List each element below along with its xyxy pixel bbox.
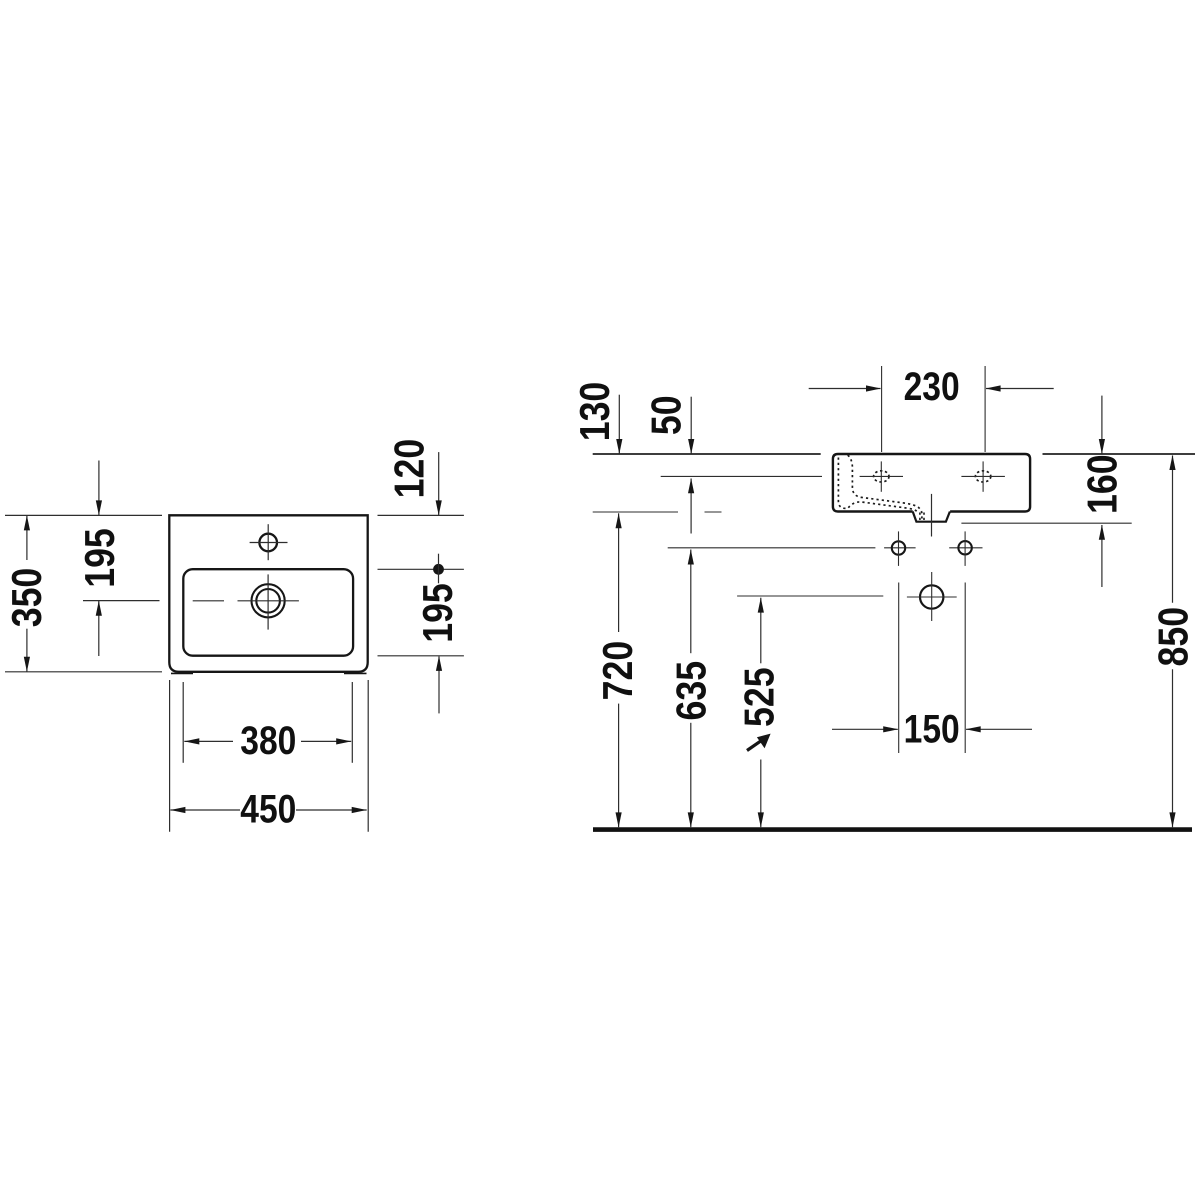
extension line bowl bottom (right) — [378, 655, 464, 657]
dim 850 line lower — [1172, 669, 1174, 827]
dim 635 line lower — [690, 723, 692, 827]
dim label 50 — [643, 395, 690, 435]
dim 120 dot — [433, 564, 444, 575]
dim 450 line right — [296, 809, 367, 811]
dim 195R arrow line — [438, 657, 440, 714]
dim 350 line upper — [26, 516, 28, 560]
dim 50 arrow down — [688, 439, 694, 454]
dim 350 arrow up — [24, 515, 30, 530]
basin bottom level line b — [705, 511, 722, 513]
dim 160 arrow up — [1099, 525, 1105, 540]
dim 130 upper arrow line — [618, 395, 620, 454]
dim 525 line lower — [760, 760, 762, 828]
dim label 350 — [3, 568, 50, 628]
dim 120 dot line — [438, 554, 440, 584]
svg-text:350: 350 — [3, 568, 50, 628]
dim 195L arrow up — [96, 601, 102, 616]
tap hole left dashed ellipse — [874, 471, 889, 482]
dim 120 arrow line — [438, 452, 440, 515]
dim label 635 — [667, 661, 714, 721]
dim 150 arrow right-pointing — [883, 726, 898, 732]
dim 50 upper arrow line — [690, 397, 692, 454]
extension line outer right (450) — [367, 680, 369, 832]
svg-text:150: 150 — [904, 707, 960, 751]
dim label 450 — [240, 788, 296, 832]
tap hole circle (plan) — [259, 534, 277, 552]
svg-text:525: 525 — [735, 667, 782, 727]
svg-text:160: 160 — [1079, 454, 1126, 514]
dim 195L arrow down — [96, 500, 102, 515]
extension line drain center (left) — [83, 600, 160, 602]
bowl section dotted outer — [848, 455, 922, 522]
dim 195R arrow up — [436, 656, 442, 671]
fixing holes level line — [668, 547, 876, 549]
dim 50 lower arrow line — [690, 479, 692, 534]
dim label 160 — [1079, 454, 1126, 514]
dim 160 upper arrow line — [1101, 396, 1103, 454]
dim 635 line upper — [690, 550, 692, 654]
dim 150 line left — [832, 728, 898, 730]
tap hole level line — [661, 475, 822, 477]
dim 230 arrow left-pointing — [986, 385, 1001, 391]
level line 160 bottom — [961, 522, 1131, 524]
adjustability arrow — [747, 734, 771, 751]
drain pipe dotted left — [919, 513, 921, 522]
dim label 195 left — [76, 528, 123, 588]
dim 230 line right — [986, 388, 1054, 390]
drain inner circle (plan) — [256, 589, 280, 613]
dim 525 line upper — [760, 598, 762, 664]
svg-text:450: 450 — [240, 788, 296, 832]
extension line fixing left (150) — [898, 583, 900, 754]
dim label 850 — [1150, 607, 1197, 667]
dim 850 arrow down — [1169, 812, 1175, 827]
extension line top edge (left) — [5, 514, 162, 516]
bowl centerline dash — [193, 600, 224, 602]
dim 230 line left — [809, 388, 881, 390]
extension line fixing right (150) — [964, 583, 966, 754]
drain centerline (side) — [931, 494, 933, 537]
tap hole left crosshair v — [880, 461, 882, 491]
waste hole circle — [920, 585, 943, 608]
extension line bowl top (right) — [378, 568, 464, 570]
svg-text:720: 720 — [594, 641, 641, 701]
svg-text:50: 50 — [643, 395, 690, 435]
basin body outline (side view) — [833, 454, 1030, 512]
waste hole crosshair v — [931, 572, 933, 621]
drain outlet trapezoid — [913, 512, 950, 522]
dim 120 arrow down — [436, 500, 442, 515]
dim 380 line left — [184, 740, 233, 742]
dim label 230 — [904, 365, 960, 409]
dim 850 line upper — [1172, 456, 1174, 603]
bowl section dotted inner — [838, 458, 917, 512]
tap hole left crosshair h — [860, 475, 903, 477]
tap hole right crosshair h — [961, 475, 1005, 477]
basin outer rim (plan view) — [169, 515, 367, 672]
dim 150 arrow left-pointing — [966, 726, 981, 732]
dim 160 lower arrow line — [1101, 525, 1103, 587]
svg-text:195: 195 — [76, 528, 123, 588]
dim 350 arrow down — [24, 657, 30, 672]
dim 720 arrow up — [616, 513, 622, 528]
tap hole right dashed ellipse — [975, 471, 990, 482]
dim 450 arrow right — [352, 807, 367, 813]
extension line bottom edge (left) — [5, 671, 162, 673]
basin bottom level line a — [593, 511, 678, 513]
svg-text:635: 635 — [667, 661, 714, 721]
dim label 380 — [240, 719, 296, 763]
dim 720 line upper — [618, 513, 620, 632]
waste hole crosshair h — [907, 596, 957, 598]
dim 195L lower arrow line — [98, 601, 100, 656]
dim 635 arrow up — [688, 550, 694, 565]
dim 380 arrow right — [336, 738, 351, 744]
dim 450 arrow left — [170, 807, 185, 813]
dim 380 line right — [301, 740, 351, 742]
dim 525 arrow up — [758, 598, 764, 613]
dim 230 arrow right-pointing — [866, 385, 881, 391]
right foot pad mark — [344, 672, 367, 674]
fixing hole left crosshair v — [898, 531, 900, 566]
extension line top edge (right) — [378, 514, 464, 516]
dim 50 arrow up — [688, 478, 694, 493]
dim label 720 — [594, 641, 641, 701]
fixing hole right crosshair v — [964, 531, 966, 566]
dim 130 arrow down — [616, 439, 622, 454]
drain pipe dotted right — [923, 513, 925, 522]
basin inner bowl (plan view) — [183, 569, 353, 656]
fixing hole right circle — [958, 541, 971, 554]
fixing hole left crosshair h — [884, 547, 916, 549]
left foot pad mark — [171, 672, 193, 674]
dim 195L upper arrow line — [98, 461, 100, 516]
dim label 150 — [904, 707, 960, 751]
dim 450 line left — [170, 809, 240, 811]
floor line — [593, 827, 1192, 832]
extension line bowl right (380) — [351, 682, 353, 763]
fixing hole left circle — [892, 541, 905, 554]
tap hole right crosshair v — [982, 461, 984, 491]
dim 525 arrow down — [758, 812, 764, 827]
extension line outer left (450) — [169, 680, 171, 832]
extension line tap left (230) — [881, 366, 883, 452]
drain level line — [737, 595, 883, 597]
drain centerline horizontal — [238, 600, 299, 602]
dim 720 line lower — [618, 704, 620, 828]
dim label 130 — [571, 382, 618, 442]
drain outer circle (plan) — [252, 584, 285, 617]
dim label 120 — [385, 439, 432, 499]
tap hole centerline vertical — [267, 524, 269, 560]
dim 150 line right — [966, 728, 1032, 730]
svg-text:850: 850 — [1150, 607, 1197, 667]
top rim level line right segment — [1043, 453, 1196, 455]
svg-text:380: 380 — [240, 719, 296, 763]
dim 380 arrow left — [184, 738, 199, 744]
extension line bowl left (380) — [182, 682, 184, 763]
svg-text:230: 230 — [904, 365, 960, 409]
svg-text:130: 130 — [571, 382, 618, 442]
top rim level line left segment — [593, 453, 821, 455]
svg-text:120: 120 — [385, 439, 432, 499]
dim label 195 right — [414, 583, 461, 643]
tap hole centerline horizontal — [250, 542, 288, 544]
dim 850 arrow up — [1169, 455, 1175, 470]
drain centerline vertical — [267, 574, 269, 629]
dim label 525 — [735, 667, 782, 727]
svg-text:195: 195 — [414, 583, 461, 643]
fixing hole right crosshair h — [949, 547, 982, 549]
dim 160 arrow down — [1099, 439, 1105, 454]
dim 350 line lower — [26, 629, 28, 672]
extension line tap right (230) — [984, 366, 986, 452]
dim 635 arrow down — [688, 812, 694, 827]
dim 720 arrow down — [616, 812, 622, 827]
